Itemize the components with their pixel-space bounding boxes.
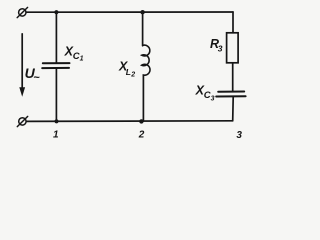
wire C3 to bottom — [232, 97, 235, 121]
svg-text:3: 3 — [218, 44, 223, 54]
svg-text:~: ~ — [33, 72, 40, 84]
svg-text:3: 3 — [211, 96, 215, 103]
wire bottom horizontal — [26, 120, 232, 123]
svg-text:2: 2 — [130, 71, 135, 78]
node junction bottom-1 — [54, 119, 58, 123]
wire top horizontal — [26, 11, 233, 13]
wire branch3 upper corner — [232, 12, 234, 33]
capacitor C1 — [42, 63, 69, 68]
inductor L2 coil — [142, 45, 150, 75]
wire R3 to C3 — [232, 63, 234, 91]
wire branch1 lower — [55, 69, 57, 122]
wire branch2 upper — [142, 12, 144, 46]
node junction top-1 — [54, 10, 58, 14]
svg-text:3: 3 — [236, 130, 242, 141]
terminal top-left — [17, 7, 27, 17]
node junction top-2 — [140, 10, 144, 14]
svg-text:1: 1 — [80, 56, 84, 63]
wire branch2 lower — [142, 75, 144, 121]
arrow U source — [19, 34, 25, 97]
wire branch1 upper — [55, 12, 57, 62]
resistor R3 — [227, 33, 239, 63]
capacitor C3 — [216, 92, 245, 97]
svg-text:2: 2 — [138, 129, 145, 140]
node junction bottom-2 — [139, 119, 143, 123]
terminal bottom-left — [17, 116, 27, 126]
svg-text:1: 1 — [53, 129, 59, 140]
